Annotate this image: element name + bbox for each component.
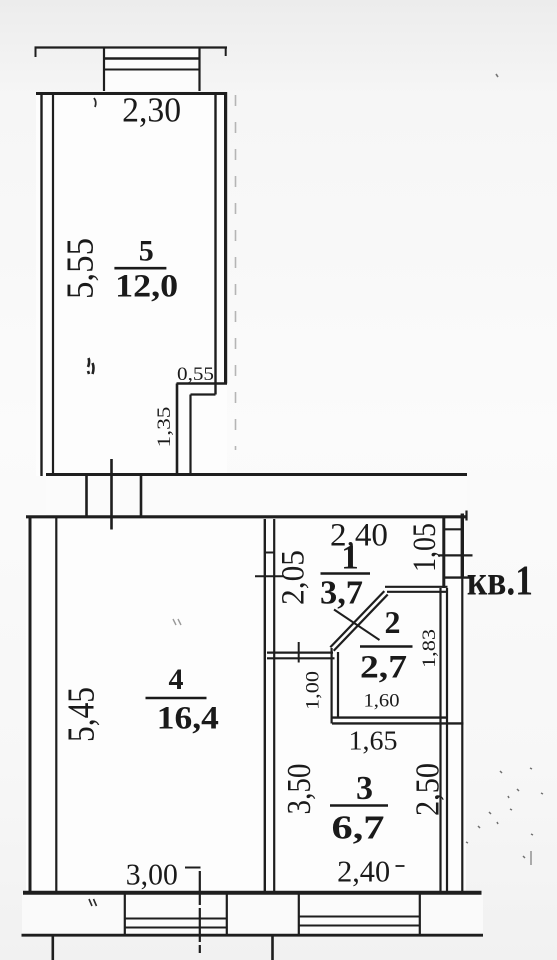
outer right wall lower part — [461, 578, 463, 893]
window 1 fill — [124, 894, 227, 935]
rooms 2-3 right wall line B — [446, 588, 448, 892]
room 4 fraction line — [146, 697, 207, 700]
facade stub left — [51, 935, 54, 960]
balcony top edge right tick — [225, 47, 227, 56]
notch inner vertical — [189, 395, 191, 475]
svg-text:2,40: 2,40 — [330, 518, 388, 554]
notch inner horizontal — [191, 393, 216, 395]
scan mark double tick below bottom wall — [89, 899, 97, 906]
svg-text:кв.1: кв.1 — [467, 558, 533, 604]
diagonal wall line A — [330, 591, 384, 647]
balcony right side — [198, 48, 200, 92]
svg-text:3,50: 3,50 — [281, 764, 318, 815]
scan dash far right — [530, 851, 532, 865]
balcony rail line 1 — [104, 57, 200, 60]
svg-text:2,7: 2,7 — [360, 650, 407, 686]
svg-text:2,30: 2,30 — [122, 91, 181, 130]
window 1 rail 1 — [125, 918, 227, 920]
svg-text:1,00: 1,00 — [303, 671, 324, 710]
svg-text:0,55: 0,55 — [177, 364, 214, 385]
shaft dimension tick — [438, 554, 473, 556]
window 1 left jamb — [124, 894, 126, 935]
svg-text:5: 5 — [139, 235, 154, 268]
room 2 bottom wall line B — [332, 722, 464, 724]
svg-text:1,35: 1,35 — [154, 407, 175, 448]
svg-text:5,45: 5,45 — [61, 687, 103, 742]
dimension tick crossing wall 4/1 — [255, 575, 284, 577]
room 2 fraction line — [360, 645, 413, 648]
svg-text:2,50: 2,50 — [410, 763, 447, 816]
dimension tick right of bottom 2,40 — [396, 865, 405, 867]
room 5 top wall — [36, 92, 227, 95]
scan mark double tick room 4 — [173, 619, 181, 625]
svg-text:1,05: 1,05 — [407, 523, 443, 572]
lower unit left wall inner — [55, 518, 57, 892]
room 5 interior fill — [36, 92, 227, 476]
room 2 left wall line B — [337, 652, 339, 718]
door jamb left between units — [85, 474, 88, 517]
svg-text:4: 4 — [169, 663, 184, 696]
facade stub middle — [271, 935, 274, 960]
room 5 left wall outer — [40, 92, 42, 476]
balcony top edge left tick — [35, 47, 37, 57]
scan mark near top wall — [94, 98, 96, 107]
svg-text:1,65: 1,65 — [349, 726, 398, 756]
lower unit top wall — [26, 515, 467, 518]
dimension tick right of 3,00 — [185, 867, 201, 869]
room 5 right wall outer — [224, 92, 227, 384]
svg-text:1: 1 — [341, 538, 359, 577]
lower unit bottom wall — [23, 891, 482, 895]
room 2 left wall line A — [331, 648, 333, 724]
svg-text:3,7: 3,7 — [320, 575, 363, 612]
faint dashed boundary right of room 5 — [235, 95, 237, 450]
notch outer vertical — [176, 384, 179, 475]
svg-text:5,55: 5,55 — [60, 238, 102, 299]
staircase strip fill — [46, 474, 467, 517]
wall between rooms 4 and 1 line B — [273, 519, 275, 892]
window 2 left jamb — [298, 894, 300, 935]
dimension tick crossing room 1 lower wall — [298, 642, 300, 663]
room 5 fraction line — [114, 267, 166, 270]
shaft bottom rung — [443, 576, 471, 578]
svg-text:16,4: 16,4 — [157, 701, 219, 737]
room 2 top wall line A — [385, 586, 448, 588]
room 1 lower wall line B — [267, 657, 335, 659]
window 2 fill — [298, 894, 420, 935]
notch outer horizontal — [177, 382, 228, 385]
balcony left side — [103, 48, 105, 92]
window 2 rail 2 — [299, 925, 420, 927]
balcony fill — [104, 47, 200, 91]
svg-text:2,40: 2,40 — [337, 854, 390, 889]
svg-text:2: 2 — [385, 604, 401, 640]
window 2 right jamb — [419, 894, 421, 935]
shaft left vertical top right — [442, 517, 445, 588]
facade strip fill — [22, 893, 483, 935]
svg-text:1,60: 1,60 — [364, 691, 400, 712]
lower unit left wall outer — [29, 516, 32, 894]
svg-text:1,83: 1,83 — [419, 629, 440, 668]
svg-text:12,0: 12,0 — [115, 269, 178, 305]
scan speck top right — [496, 74, 498, 77]
rung in wall 4/1 — [264, 552, 275, 554]
room 5 left wall inner — [52, 94, 54, 475]
window 1 right jamb — [226, 894, 228, 935]
window 2 rail 1 — [299, 916, 420, 918]
lower facade line — [22, 934, 484, 937]
balcony rail line 2 — [104, 69, 200, 71]
room 5 right wall inner — [214, 94, 216, 395]
dimension pointer through window 1 — [199, 871, 201, 953]
room 2 bottom wall line A — [332, 716, 448, 718]
room 2 top wall line B — [387, 591, 448, 593]
svg-text:3: 3 — [356, 770, 373, 807]
upper unit bottom wall — [46, 473, 467, 476]
leader line crossing diagonal wall — [334, 610, 380, 641]
outer right wall upper part — [461, 514, 464, 579]
wall between rooms 4 and 1 line A — [264, 519, 266, 892]
balcony top edge line — [35, 46, 228, 48]
svg-text:3,00: 3,00 — [126, 857, 178, 892]
shaft rung 1 — [444, 528, 463, 530]
svg-text:6,7: 6,7 — [332, 810, 385, 847]
scan specks cluster right — [466, 768, 543, 858]
room 1 fraction line — [321, 572, 371, 575]
door leaf line between units — [110, 459, 113, 530]
diagonal wall line B — [334, 595, 388, 651]
svg-text:2,05: 2,05 — [276, 550, 312, 605]
lower unit top wall right end tick — [465, 511, 467, 521]
door jamb right between units — [140, 474, 143, 517]
lower unit interior fill — [26, 514, 466, 896]
room 1 lower wall line A — [267, 651, 333, 653]
window 1 rail 2 — [125, 927, 227, 929]
room 3 fraction line — [330, 804, 388, 807]
rooms 2-3 right wall line A — [439, 588, 441, 892]
scan blotch in room 5 — [88, 358, 94, 374]
